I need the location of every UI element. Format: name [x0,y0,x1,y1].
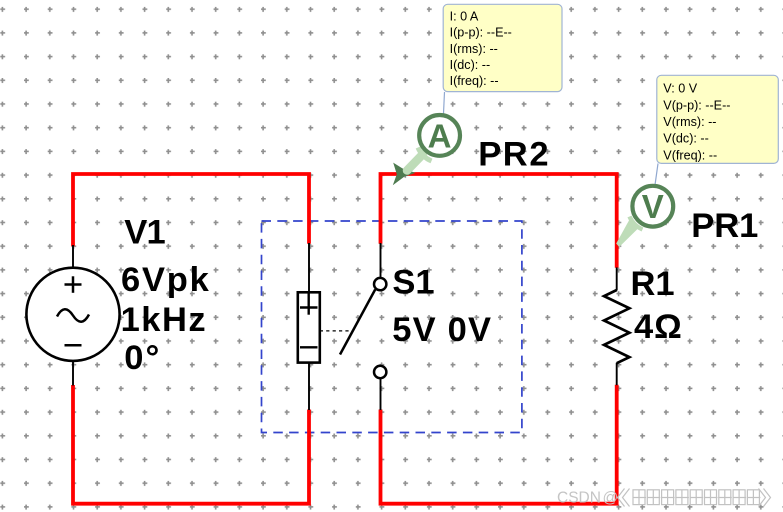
svg-text:PR1: PR1 [691,207,758,245]
svg-text:I(freq): --: I(freq): -- [450,74,499,88]
svg-text:CSDN: CSDN [557,490,601,507]
svg-text:0°: 0° [124,339,161,377]
svg-text:V(dc): --: V(dc): -- [663,132,708,146]
svg-text:R1: R1 [631,265,675,303]
svg-text:V: 0 V: V: 0 V [663,82,697,96]
svg-text:4Ω: 4Ω [634,308,683,346]
svg-text:V(p-p): --E--: V(p-p): --E-- [663,98,730,112]
svg-text:A: A [428,117,452,154]
svg-text:PR2: PR2 [478,136,550,174]
svg-text:V: V [642,188,664,225]
svg-text:I(rms): --: I(rms): -- [450,42,498,56]
svg-text:5V 0V: 5V 0V [392,311,492,349]
svg-text:I: 0 A: I: 0 A [450,10,479,24]
svg-text:6Vpk: 6Vpk [121,261,211,299]
svg-text:V1: V1 [124,214,165,252]
svg-text:1kHz: 1kHz [121,301,208,339]
svg-text:V(rms): --: V(rms): -- [663,115,716,129]
svg-text:I(dc): --: I(dc): -- [450,58,491,72]
svg-text:V(freq): --: V(freq): -- [663,148,717,162]
svg-text:I(p-p): --E--: I(p-p): --E-- [450,26,512,40]
svg-text:S1: S1 [392,264,434,302]
svg-text:@: @ [603,490,619,507]
